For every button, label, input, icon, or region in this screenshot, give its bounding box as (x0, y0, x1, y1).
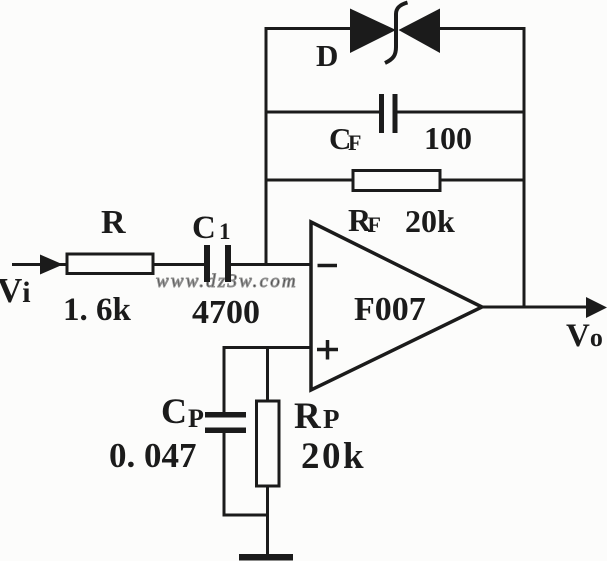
wire: output line (482, 306, 600, 309)
resistor RF (353, 171, 440, 191)
wire: RF branch (266, 179, 524, 182)
wire: C1 to inverting input (node at left bus junction) (231, 263, 311, 266)
output arrow (586, 297, 607, 318)
resistor R (67, 254, 153, 274)
capacitor CP plates (205, 412, 246, 418)
wire: bottom junction CP-RP (223, 514, 268, 517)
capacitor C1 plates (204, 245, 210, 282)
svg-text:P: P (188, 404, 204, 433)
svg-text:P: P (323, 404, 340, 434)
op-amp non-inverting pin plus (317, 340, 338, 360)
svg-text:D: D (316, 38, 338, 73)
wire: left vertical feedback bus (265, 27, 268, 266)
input arrow (40, 255, 63, 275)
wire: non-inverting input line (224, 346, 311, 349)
wire: top feedback branch, left segment (266, 27, 352, 30)
wire: top feedback branch, right segment (438, 27, 524, 30)
wire: CP branch lower stem (223, 433, 226, 517)
svg-text:1: 1 (219, 219, 231, 244)
svg-text:20k: 20k (405, 203, 455, 239)
diode D (bidirectional zener), left triangle (350, 9, 396, 54)
wire: right vertical feedback bus (523, 27, 526, 307)
ground (239, 554, 293, 561)
wire: ground stem (266, 514, 269, 556)
svg-text:R: R (101, 204, 126, 241)
svg-text:F007: F007 (354, 291, 426, 328)
svg-text:C: C (192, 210, 216, 246)
capacitor CF plates (379, 94, 384, 133)
wire: RP branch lower stem (266, 486, 269, 515)
op-amp inverting pin minus (318, 264, 338, 268)
diode D, zener S bar (385, 3, 408, 64)
svg-text:100: 100 (424, 120, 472, 156)
svg-text:Vi: Vi (0, 271, 31, 310)
wire: CF branch right segment (397, 111, 524, 114)
svg-text:1. 6k: 1. 6k (63, 292, 132, 328)
svg-text:4700: 4700 (192, 294, 260, 331)
resistor RP (257, 401, 280, 486)
wire: CF branch left segment (266, 111, 379, 114)
svg-text:Vo: Vo (566, 318, 603, 354)
svg-text:R: R (294, 396, 322, 437)
wire: RP branch upper stem (266, 346, 269, 401)
wire: input line from Vi (12, 263, 204, 266)
wire: CP branch upper stem (223, 346, 226, 412)
svg-text:20k: 20k (301, 436, 366, 477)
diode D, right triangle (399, 9, 441, 54)
op-amp U1 F007 triangle (311, 222, 482, 390)
svg-text:F: F (348, 130, 361, 155)
svg-text:0. 047: 0. 047 (109, 436, 197, 475)
svg-text:F: F (368, 212, 381, 237)
svg-text:C: C (161, 391, 187, 431)
